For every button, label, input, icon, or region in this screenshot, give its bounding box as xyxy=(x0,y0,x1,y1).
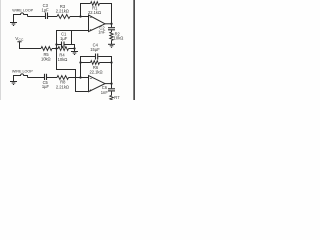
capacitor C1 xyxy=(57,42,75,49)
node: bias node xyxy=(55,47,57,49)
svg-text:WIRE LOOP: WIRE LOOP xyxy=(12,70,33,74)
resistor R3 xyxy=(57,15,70,19)
svg-text:R7: R7 xyxy=(114,95,120,100)
wire: R6 to output bus xyxy=(100,62,112,64)
wire: R8 to U2 inverting input xyxy=(69,77,89,79)
wire: C3 to R3 xyxy=(48,16,57,18)
svg-text:10kΩ: 10kΩ xyxy=(58,57,68,62)
wire: feedback riser (top) xyxy=(81,4,91,17)
wire: U2 output xyxy=(105,83,112,85)
wire: C4 right leg to output bus xyxy=(98,57,111,63)
resistor R7 (cut off at page edge) xyxy=(110,95,113,100)
wire: C6 to R7 xyxy=(111,91,113,95)
wire: Vcc terminal bar and drop xyxy=(17,42,41,49)
svg-text:22.1kΩ: 22.1kΩ xyxy=(89,70,102,75)
wire: bottom loop to C5 xyxy=(28,77,45,79)
capacitor C4 xyxy=(96,54,98,60)
ground (bias divider) xyxy=(71,49,78,55)
resistor R6 xyxy=(91,61,100,65)
svg-text:10kΩ: 10kΩ xyxy=(114,36,124,41)
svg-text:22.1kΩ: 22.1kΩ xyxy=(88,10,101,15)
wire: output node down to C6 xyxy=(111,84,113,89)
capacitor C5 xyxy=(45,74,47,80)
ground (bottom loop) xyxy=(10,78,17,85)
op-amp U1 (top) xyxy=(89,15,106,32)
svg-text:1µF: 1µF xyxy=(42,7,50,12)
wire: bias rail down-jog to U2 noninverting input xyxy=(57,49,89,92)
right page border xyxy=(133,0,135,100)
capacitor C2 xyxy=(108,28,115,30)
wire: C1 box right side xyxy=(71,31,73,45)
wire: bias rail up to U1 noninverting input xyxy=(57,31,89,49)
svg-text:C6: C6 xyxy=(102,85,108,90)
node: feedback/C4 tap xyxy=(79,61,81,63)
wire: feedback riser (bottom) xyxy=(80,63,82,78)
svg-text:1µF: 1µF xyxy=(42,84,50,89)
resistor R5 xyxy=(41,47,52,51)
node: R4/C1 ground junction xyxy=(73,47,75,49)
svg-text:VCC: VCC xyxy=(15,36,24,42)
resistor R2 xyxy=(110,32,113,40)
node: C1 tap xyxy=(55,43,57,45)
wire: top loop to C3 xyxy=(28,16,46,18)
wire: C5 to R8 xyxy=(47,77,57,79)
svg-text:2.21kΩ: 2.21kΩ xyxy=(56,9,69,14)
node: top inverting input junction xyxy=(79,15,81,17)
wire: C2 to R2 xyxy=(111,30,113,32)
wire: U1 output xyxy=(105,23,112,25)
svg-text:10kΩ: 10kΩ xyxy=(41,56,51,61)
ground (top loop) xyxy=(10,17,17,26)
left page border xyxy=(0,0,2,100)
svg-text:2.21kΩ: 2.21kΩ xyxy=(56,84,69,89)
wire: R4 to ground node xyxy=(69,48,75,50)
op-amp U2 (bottom) xyxy=(89,76,106,92)
wire loop symbol (bottom antenna) xyxy=(14,74,28,78)
svg-text:WIRE LOOP: WIRE LOOP xyxy=(12,9,33,13)
resistor R4 xyxy=(57,47,69,51)
svg-text:15µF: 15µF xyxy=(90,47,100,52)
svg-text:1µF: 1µF xyxy=(60,36,68,41)
wire: R1 to output node (top) xyxy=(100,4,112,24)
capacitor C6 xyxy=(108,89,115,91)
wire: R5 to bias node xyxy=(52,48,57,50)
node: bottom inverting input junction xyxy=(79,76,81,78)
resistor R1 (feedback) xyxy=(91,2,100,6)
node: bottom output junction xyxy=(110,82,112,84)
svg-text:1nF: 1nF xyxy=(98,29,106,34)
wire: output node down to C2 xyxy=(111,24,113,28)
node: top output junction xyxy=(110,23,112,25)
wire: R6 feedback row left segment xyxy=(81,62,91,64)
wire loop symbol (top antenna) xyxy=(14,13,28,17)
wire: R2 to ground xyxy=(111,40,113,44)
ground (below R2) xyxy=(108,44,115,47)
svg-text:1nF: 1nF xyxy=(101,90,109,95)
capacitor C3 xyxy=(46,13,48,20)
node: R6/C4 output-bus junction xyxy=(110,61,112,63)
resistor R8 xyxy=(57,76,69,80)
wire: C4 branch left leg xyxy=(81,57,96,63)
wire: output bus down to U2 output xyxy=(111,63,113,84)
wire: R3 to op-amp inverting input xyxy=(70,16,89,18)
